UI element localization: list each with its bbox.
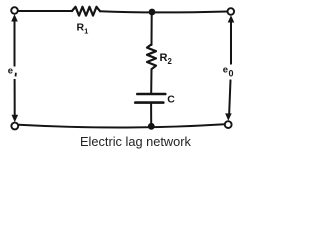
wire bottom horizontal	[19, 124, 225, 127]
junction dot top node	[149, 9, 156, 16]
wire branch upper (junction to R2)	[151, 14, 153, 45]
arrow down at left lower terminal	[12, 115, 19, 123]
terminal top-left	[11, 7, 18, 14]
label ei subscript tick	[15, 73, 17, 77]
capacitor C bottom plate	[135, 101, 163, 104]
svg-text:R2: R2	[160, 52, 173, 66]
svg-text:C: C	[167, 94, 175, 106]
arrow up at right output terminal	[228, 15, 235, 22]
terminal bottom-left	[11, 123, 18, 130]
svg-text:R1: R1	[77, 22, 89, 36]
wire left vertical upper	[14, 18, 16, 66]
wire branch middle (R2 to capacitor)	[150, 69, 152, 92]
capacitor C top plate	[137, 93, 165, 96]
label ei background	[6, 67, 19, 80]
wire branch lower (capacitor to bottom rail)	[150, 104, 152, 124]
svg-text:e: e	[8, 65, 13, 76]
label eo background	[222, 65, 237, 80]
arrow down at right lower terminal	[225, 113, 232, 120]
svg-text:Electric lag network: Electric lag network	[80, 134, 192, 149]
wire top-left horizontal	[18, 10, 72, 12]
wire left vertical lower	[14, 79, 16, 115]
wire right vertical lower	[229, 80, 230, 113]
wire right vertical upper	[230, 19, 232, 65]
arrow up at left input terminal	[11, 14, 18, 21]
junction dot bottom node	[148, 123, 155, 130]
terminal top-right	[228, 8, 235, 15]
resistor R1	[72, 7, 100, 16]
terminal bottom-right	[225, 121, 232, 128]
wire top-right horizontal	[100, 11, 228, 12]
resistor R2	[147, 44, 156, 69]
